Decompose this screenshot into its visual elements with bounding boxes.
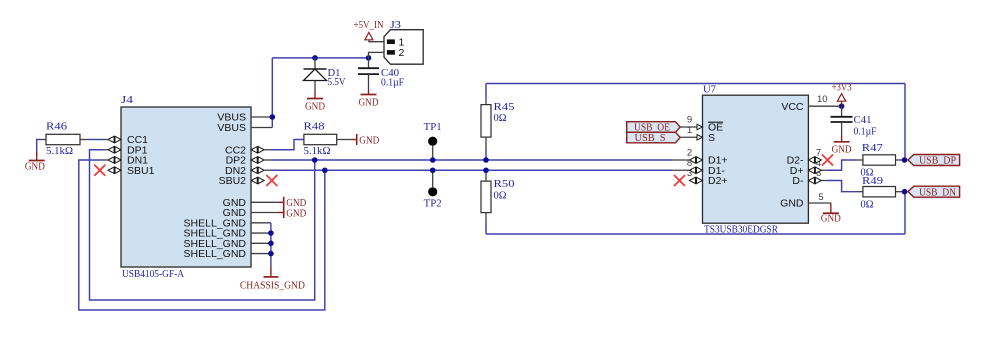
svg-text:TP1: TP1 [424, 122, 442, 133]
R50 designator label [494, 179, 515, 190]
U7 designator label [703, 84, 716, 95]
svg-text:USB4105-GF-A: USB4105-GF-A [122, 269, 184, 280]
no-connect X on SBU1 [95, 165, 105, 175]
U7 pin D- glyph [808, 177, 821, 183]
J4 pin name DN2 [225, 165, 246, 177]
resistor R47 0 Ohm [863, 155, 905, 165]
J4 designator label [121, 95, 134, 106]
J4 pin name GND (1) [223, 197, 247, 209]
svg-text:TP2: TP2 [424, 199, 442, 210]
U7 pin S input arrow [697, 135, 703, 140]
J4 pin DP2 glyph [251, 157, 264, 163]
svg-text:5: 5 [818, 192, 823, 203]
U7 pin name OE with overline [708, 122, 723, 134]
capacitor C40 0.1uF [358, 58, 379, 89]
U7 pin name D1+ [708, 155, 728, 167]
U7 pin number 7 [816, 148, 821, 159]
svg-text:R45: R45 [494, 102, 515, 113]
svg-text:U7: U7 [703, 84, 716, 95]
svg-text:GND: GND [305, 102, 325, 113]
D1 value 5.5V [328, 77, 346, 88]
wire J3 pin1 to +5V_IN [369, 40, 384, 42]
no-connect X on D2- [823, 155, 833, 165]
U7 pin D1+ glyph [690, 157, 703, 163]
ground GND at U7 pin 5 [821, 205, 841, 225]
C41 value 0.1uF [854, 126, 877, 137]
test point TP2 [428, 170, 437, 196]
J4 part number USB4105-GF-A [122, 269, 184, 280]
svg-text:R46: R46 [46, 122, 67, 133]
power port +3V3 [832, 83, 852, 107]
svg-text:0.1µF: 0.1µF [854, 126, 877, 137]
svg-text:R47: R47 [862, 143, 883, 154]
resistor R46 5.1k [40, 134, 88, 144]
resistor R45 0 Ohm [481, 84, 491, 161]
R45 value 0 Ohm [494, 113, 507, 124]
svg-text:R50: R50 [494, 179, 515, 190]
junction SHELL_GND 2 [268, 230, 274, 236]
D1 designator label [328, 68, 341, 79]
svg-text:0Ω: 0Ω [494, 190, 507, 201]
ground GND at R46 [25, 152, 45, 173]
U7 pin name S [708, 132, 715, 144]
U7 pin name D- [792, 175, 804, 187]
J4 pin name DN1 [127, 155, 148, 167]
wire net DP horizontal [264, 159, 689, 161]
R46 value 5.1kOhm [46, 146, 73, 157]
J4 pin name VBUS (pin B4) [217, 122, 246, 134]
wire top rail [486, 83, 905, 85]
svg-text:GND: GND [832, 144, 852, 155]
R48 value 5.1kOhm [304, 146, 331, 157]
J4 pin name VBUS (pin A4) [217, 112, 246, 124]
J4 pin name SBU2 [219, 175, 247, 187]
net port USB_OE [627, 122, 681, 134]
J4 pin CC2 glyph [251, 147, 264, 153]
wire D+ to R47 [821, 160, 863, 170]
svg-text:GND: GND [286, 208, 306, 219]
J4 GND pin 1 lead [251, 201, 284, 203]
J4 GND pin 2 lead [251, 212, 284, 214]
svg-text:J3: J3 [390, 20, 401, 31]
svg-text:0Ω: 0Ω [861, 200, 874, 211]
wire bottom rail [486, 233, 905, 235]
wire VBUS vertical to +5V rail [271, 58, 273, 128]
U7 pin number 1 [687, 125, 692, 136]
U7 pin number 3 [687, 168, 692, 179]
U7 pin number 8 [687, 158, 692, 169]
J4 pin name DP2 [226, 155, 247, 167]
IC U7 TS3USB30EDGSR body [703, 95, 809, 223]
ground GND under C40 [359, 89, 379, 109]
junction R50-DN [483, 167, 489, 173]
svg-text:5.1kΩ: 5.1kΩ [304, 146, 331, 157]
svg-text:VCC: VCC [781, 101, 804, 113]
J4 pin DN2 glyph [251, 167, 264, 173]
J4 pin DN1 glyph [108, 157, 121, 163]
ground GND under D1 [305, 92, 325, 113]
net port USB_DP [908, 155, 960, 167]
svg-text:5.5V: 5.5V [328, 77, 346, 88]
TP1 label [424, 122, 442, 133]
junction TP1 on DP net [430, 157, 436, 163]
wire D- to R49 [821, 181, 863, 192]
C40 value 0.1uF [381, 78, 404, 89]
wire +5V rail horizontal [272, 57, 368, 59]
wire top rail right vertical [904, 84, 906, 161]
U7 pin number 10 [817, 94, 828, 105]
R50 value 0 Ohm [494, 190, 507, 201]
svg-text:SBU2: SBU2 [219, 175, 247, 187]
junction +5V at C40 [366, 55, 372, 61]
svg-text:SBU1: SBU1 [127, 165, 155, 177]
U7 pin number 6 [816, 168, 821, 179]
svg-text:+5V_IN: +5V_IN [354, 20, 384, 31]
J4 pin name CC1 [127, 134, 148, 146]
R49 value 0 Ohm [861, 200, 874, 211]
J4 pin CC1 glyph [108, 136, 121, 142]
R48 designator label [304, 122, 325, 133]
connector J4 USB4105-GF-A body [121, 107, 251, 267]
svg-text:R49: R49 [862, 176, 883, 187]
U7 pin number 2 [687, 148, 692, 159]
ground GND under C41 [832, 135, 852, 155]
resistor R48 5.1k [304, 134, 356, 144]
junction SHELL_GND 3 [268, 241, 274, 247]
svg-text:GND: GND [780, 198, 804, 210]
junction R45-DP [483, 157, 489, 163]
connector J3 body [384, 30, 423, 64]
svg-text:0.1µF: 0.1µF [381, 78, 404, 89]
svg-text:GND: GND [359, 98, 379, 109]
U7 pin number 5 [818, 192, 823, 203]
wire bottom rail right vertical [904, 192, 906, 234]
J3 pin number 1 [399, 36, 405, 48]
J4 VBUS pin leads [251, 117, 272, 128]
power port +5V_IN [354, 20, 384, 40]
svg-text:USB_DN: USB_DN [919, 187, 956, 198]
U7 pin D2- glyph [808, 157, 821, 163]
J4 pin name CC2 [225, 144, 246, 156]
junction SHELL_GND 4 [268, 251, 274, 257]
J3 pin number 2 [399, 47, 405, 59]
J4 SHELL_GND pin leads [251, 223, 271, 254]
svg-text:0Ω: 0Ω [494, 113, 507, 124]
J4 pin SBU1 glyph [108, 167, 121, 173]
J4 pin name SHELL_GND (3) [184, 238, 247, 250]
wire R46 to CC1 pin [88, 139, 108, 141]
R47 designator label [862, 143, 883, 154]
svg-text:5.1kΩ: 5.1kΩ [46, 146, 73, 157]
svg-text:CHASSIS_GND: CHASSIS_GND [240, 280, 305, 291]
wire USB_S to S pin [680, 136, 697, 138]
junction DP2 [312, 157, 318, 163]
J4 pin name DP1 [127, 144, 148, 156]
R49 designator label [862, 176, 883, 187]
U7 pin number 4 [816, 158, 821, 169]
junction VCC node [839, 103, 845, 109]
R46 designator label [46, 122, 67, 133]
no-connect X on D2+ [675, 176, 685, 186]
ground CHASSIS_GND [240, 266, 305, 291]
junction TP2 on DN net [430, 167, 436, 173]
svg-text:GND: GND [359, 135, 379, 146]
resistor R50 0 Ohm [481, 170, 491, 234]
J4 pin name SBU1 [127, 165, 155, 177]
wire DP loop via bottom [90, 150, 315, 300]
svg-text:D-: D- [792, 175, 804, 187]
R47 value 0 Ohm [861, 168, 874, 179]
U7 part number TS3USB30EDGSR [704, 225, 778, 236]
wire USB_OE to OE pin [680, 126, 697, 128]
J3 designator label [390, 20, 401, 31]
svg-text:TS3USB30EDGSR: TS3USB30EDGSR [704, 225, 778, 236]
J4 pin name SHELL_GND (2) [184, 228, 247, 240]
junction USB_DN node [902, 189, 908, 195]
U7 pin name D+ [790, 165, 804, 177]
wire DN loop via bottom [79, 160, 325, 310]
U7 pin D1- glyph [690, 167, 703, 173]
U7 pin D+ glyph [808, 167, 821, 173]
U7 pin name VCC [781, 101, 804, 113]
J4 pin SBU2 glyph [251, 177, 264, 183]
junction +5V at D1 [312, 55, 318, 61]
svg-text:USB_S: USB_S [635, 133, 666, 144]
junction USB_DP node [902, 157, 908, 163]
test point TP1 [428, 137, 437, 160]
TP2 label [424, 199, 442, 210]
U7 VCC pin lead [808, 105, 841, 107]
U7 pin name D1- [708, 165, 725, 177]
net port USB_DN [908, 186, 960, 198]
svg-text:S: S [708, 132, 715, 144]
svg-text:GND: GND [25, 162, 45, 173]
U7 pin OE input arrow [697, 124, 703, 129]
junction VBUS pins [270, 114, 276, 120]
svg-text:R48: R48 [304, 122, 325, 133]
svg-text:SHELL_GND: SHELL_GND [184, 248, 247, 260]
svg-text:VBUS: VBUS [217, 122, 246, 134]
ground GND bar at J4 GND1 [284, 197, 307, 209]
U7 GND pin lead [808, 203, 830, 205]
net port USB_S [627, 132, 681, 144]
C41 designator label [854, 115, 872, 126]
J4 pin name SHELL_GND (4) [184, 248, 247, 260]
J4 pin name GND (2) [223, 207, 247, 219]
wire net DN horizontal [264, 169, 689, 171]
svg-text:GND: GND [821, 213, 841, 224]
svg-text:2: 2 [399, 47, 405, 59]
R45 designator label [494, 102, 515, 113]
ground GND bar at R48 [357, 134, 380, 146]
C40 designator label [381, 68, 399, 79]
J4 pin name SHELL_GND (1) [184, 217, 247, 229]
wire CC2 to R48 [264, 140, 304, 150]
U7 pin name D2+ [708, 175, 728, 187]
svg-text:C41: C41 [854, 115, 872, 126]
resistor R49 0 Ohm [863, 187, 905, 197]
J4 pin DP1 glyph [108, 147, 121, 153]
svg-text:+3V3: +3V3 [832, 83, 852, 94]
svg-text:J4: J4 [121, 95, 134, 106]
ground GND bar at J4 GND2 [284, 207, 307, 219]
junction DN2 [322, 167, 328, 173]
diode D1 5.5V TVS [304, 58, 327, 92]
U7 pin name D2- [787, 155, 804, 167]
no-connect X on SBU2 [267, 176, 277, 186]
svg-text:USB_DP: USB_DP [919, 156, 956, 167]
U7 pin number 9 [687, 115, 692, 126]
wire SHELL_GND bus vertical [270, 223, 272, 266]
U7 pin D2+ glyph [690, 177, 703, 183]
U7 pin name GND [780, 198, 804, 210]
svg-text:D2+: D2+ [708, 175, 728, 187]
wire J3 pin2 to +5V rail [369, 52, 385, 58]
wire R46 to ground [37, 140, 40, 153]
capacitor C41 0.1uF [831, 106, 853, 135]
svg-text:10: 10 [817, 94, 828, 105]
